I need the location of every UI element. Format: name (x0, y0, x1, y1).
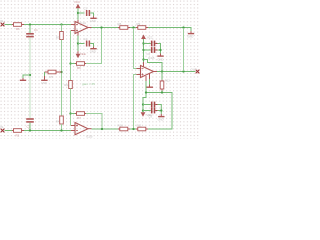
resistor R3 vertical (60, 32, 64, 40)
junction output gnd (161, 70, 163, 72)
wire output to R12 (161, 72, 163, 80)
ground GND3 (90, 16, 96, 19)
svg-text:GND: GND (187, 35, 193, 39)
ground mid-left GND1 (20, 78, 26, 81)
svg-text:IC1A: IC1A (80, 21, 86, 25)
ground GND8 under IC1C (146, 85, 153, 88)
svg-text:R3: R3 (56, 36, 60, 40)
junction vminus row (145, 91, 147, 93)
capacitor C2 (26, 118, 34, 123)
resistor R5 to ground (45, 70, 62, 74)
op-amp IC1C (137, 62, 158, 81)
junction VCC2 c5 (142, 42, 144, 44)
wire C3 to gnd (90, 13, 93, 16)
svg-text:VCC: VCC (74, 0, 80, 4)
capacitor C9 (151, 108, 158, 114)
svg-text:R7: R7 (77, 116, 81, 120)
supply VEE arrow left (76, 51, 81, 58)
wire bottom input net (5, 130, 72, 132)
junction C8 (142, 103, 144, 105)
capacitor C4 (86, 41, 90, 47)
wire C5 to corner (158, 44, 161, 51)
svg-text:C1: C1 (34, 28, 38, 32)
wire cap C2 to bottom wire (29, 123, 31, 130)
ground GND6 (157, 54, 163, 57)
resistor R8 (118, 26, 130, 30)
ground GND9 (158, 114, 164, 117)
svg-text:R9: R9 (137, 22, 141, 26)
ground GND4 (90, 47, 96, 50)
wire loop to output crossing (144, 60, 163, 72)
junction bottom left node (60, 129, 62, 131)
junction VCC2 loop (142, 58, 144, 60)
svg-text:C3: C3 (84, 6, 88, 10)
svg-text:GND: GND (90, 49, 96, 53)
pin X1 (1, 23, 5, 27)
capacitor C5 (151, 41, 158, 47)
svg-text:GND: GND (158, 118, 164, 122)
wire C5 row (144, 43, 151, 45)
junction divider bottom (132, 128, 134, 130)
resistor R10 (118, 127, 130, 131)
wire C4 to gnd (90, 44, 93, 47)
wire C9 row (143, 110, 151, 112)
wire x70 lower (70, 89, 72, 126)
resistor R7 feedback (75, 112, 86, 116)
svg-text:C6: C6 (147, 52, 151, 56)
wire IC1C gnd pin (149, 79, 151, 85)
wire R7 to bottom out row (86, 114, 102, 130)
wire R7 row (71, 113, 76, 115)
junction output feedback (182, 70, 184, 72)
resistor R1 (12, 23, 24, 27)
capacitor C1 (26, 33, 34, 37)
svg-text:OUT: OUT (191, 67, 197, 71)
junction feedback top (69, 62, 71, 64)
wire output row (157, 71, 196, 73)
junction top left node (60, 23, 62, 25)
svg-text:IC1B: IC1B (86, 135, 92, 139)
svg-text:VCC: VCC (147, 35, 153, 39)
wire top output row (92, 28, 192, 32)
pin X3 output (196, 70, 200, 74)
wire C6 row (144, 49, 151, 51)
svg-text:R12: R12 (165, 79, 170, 83)
junction node bottom cap (29, 129, 31, 131)
supply VCC arrow (76, 4, 81, 9)
svg-text:R8: R8 (118, 22, 122, 26)
wire Vplus decoupling (78, 12, 85, 14)
wire C6 to gnd (158, 50, 161, 54)
svg-text:R10: R10 (118, 123, 124, 127)
junction mid gnd (29, 74, 31, 76)
svg-text:R2: R2 (16, 133, 20, 137)
junction Vminus (77, 42, 79, 44)
svg-text:R4: R4 (56, 120, 60, 124)
junction feedback tap top (100, 26, 102, 28)
wire to mid gnd (23, 75, 30, 78)
svg-text:C4: C4 (84, 37, 88, 41)
junction C rows (159, 49, 161, 51)
wire cap C1 vertical (29, 25, 31, 33)
svg-text:RG: RG (64, 83, 69, 87)
wire noninv net x133 lower (134, 75, 137, 130)
ground GND5 top right (188, 31, 194, 34)
junction x61 divider (60, 71, 62, 73)
capacitor C3 (86, 10, 90, 16)
svg-text:GND: GND (158, 58, 164, 62)
wire mid vertical net x30 (29, 37, 31, 118)
junction feedback bottom (69, 112, 71, 114)
wire top input net (5, 24, 72, 26)
svg-text:IN-: IN- (0, 125, 4, 129)
wire IC1C vminus down (143, 81, 146, 112)
ground GND2 (41, 76, 47, 81)
capacitor C8 (151, 102, 158, 108)
junction node top cap (29, 23, 31, 25)
svg-text:VEE: VEE (80, 52, 86, 56)
op-amp IC1A (71, 20, 92, 36)
wire noninv to IC1B (70, 125, 73, 127)
capacitor C6 (151, 47, 158, 53)
svg-text:R5: R5 (50, 75, 54, 79)
supply VEE2 arrow (141, 112, 146, 117)
wire R6 to top node (86, 28, 102, 64)
svg-text:R6: R6 (77, 66, 81, 70)
junction VCC2 c6 (142, 49, 144, 51)
wire C9 to gnd (158, 111, 162, 115)
wire bottom output row (92, 93, 173, 130)
svg-text:C9: C9 (149, 114, 153, 118)
op-amp IC1B (71, 123, 92, 135)
resistor R9 (136, 26, 148, 30)
supply VCC2 arrow (141, 35, 146, 40)
wire Vminus decoupling (78, 43, 85, 45)
wire inv net x133 upper (134, 28, 137, 69)
junction C9 (142, 109, 144, 111)
resistor R6 feedback (75, 62, 86, 66)
svg-text:GND: GND (41, 81, 47, 85)
resistor R2 (12, 129, 24, 133)
svg-text:R11: R11 (137, 123, 142, 127)
junction C7 corner (161, 91, 163, 93)
wire C8 to corner (158, 105, 162, 111)
resistor R11 (136, 127, 148, 131)
svg-text:GND: GND (90, 19, 96, 23)
wire VCC2 vertical (143, 39, 145, 62)
svg-text:R1: R1 (16, 27, 20, 31)
junction C rows bottom (160, 109, 162, 111)
resistor R4 vertical (60, 116, 64, 124)
wire R5 to gnd (44, 72, 46, 76)
junction divider top (132, 26, 134, 28)
resistor R12 vertical (160, 80, 164, 91)
wire noninv vertical x70 (70, 31, 73, 81)
svg-text:IC1B: IC1B (148, 56, 154, 60)
wire Vminus (77, 36, 79, 52)
wire x61 lower (61, 124, 63, 131)
svg-text:IN+: IN+ (0, 19, 5, 23)
wire C8 row (143, 104, 151, 106)
svg-text:gain = 35: gain = 35 (82, 82, 95, 86)
wire R6 row (71, 63, 76, 65)
junction feedback tap bottom (101, 128, 103, 130)
junction Vplus (77, 12, 79, 14)
junction right top (182, 26, 184, 28)
wire x61 mid (61, 40, 63, 117)
resistor RG vertical (69, 81, 73, 89)
wire R12 to Vminus row (146, 91, 162, 93)
wire feedback right vertical (183, 28, 185, 71)
wire x61 upper (61, 25, 63, 32)
pin X2 (1, 129, 5, 133)
wire VCC to IC1A (77, 8, 79, 19)
